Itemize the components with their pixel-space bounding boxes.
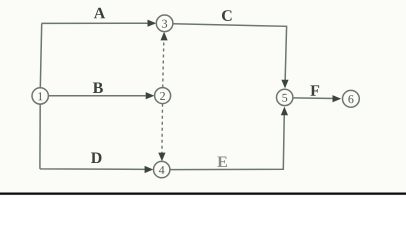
- wire F from node 5 to node 6: [293, 97, 335, 100]
- arrowhead B into node 2: [146, 92, 155, 99]
- label B: [93, 83, 103, 94]
- dashed wire node 2 to node 3: [163, 37, 164, 88]
- arrowhead E into node 5: [281, 107, 288, 116]
- node 4: [154, 161, 170, 177]
- arrowhead dashed into node 4: [158, 153, 165, 162]
- wire D horizontal with drop from node 1: [40, 104, 147, 169]
- label E: [217, 157, 227, 167]
- node 3: [156, 15, 173, 32]
- node 1: [32, 88, 48, 104]
- node 6: [343, 90, 360, 107]
- wire B from node 1 to node 2: [49, 95, 149, 97]
- label D: [91, 153, 101, 164]
- node 2: [155, 88, 171, 104]
- wire E from node 4 to corner then up to node 5: [170, 112, 284, 170]
- wire C from node 3 to corner then down to node 5: [173, 24, 287, 82]
- wire A horizontal with riser from node 1: [40, 23, 150, 88]
- node 5: [277, 89, 293, 105]
- label F: [310, 85, 319, 95]
- arrowhead A into node 3: [148, 20, 157, 27]
- dashed wire node 2 to node 4: [161, 104, 164, 156]
- label C: [222, 10, 232, 21]
- arrowhead D into node 4: [145, 166, 154, 173]
- arrowhead C into node 5: [281, 80, 288, 89]
- label A: [94, 8, 105, 19]
- arrowhead dashed into node 3: [161, 32, 168, 41]
- arrowhead F into node 6: [333, 95, 342, 102]
- bottom rule: [0, 193, 406, 195]
